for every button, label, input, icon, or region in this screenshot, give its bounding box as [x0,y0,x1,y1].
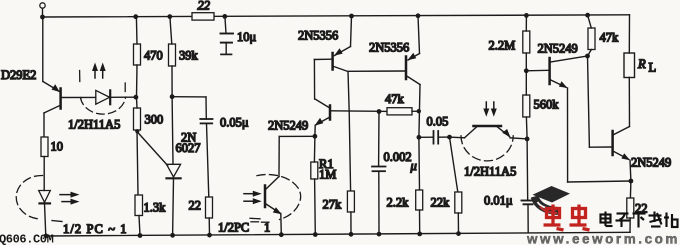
junction dot node 47k left [377,109,382,114]
resistor 22 right [627,181,648,232]
resistor 22 left-mid [189,197,213,235]
optocoupler LED 1/2H11A5 [80,63,136,115]
svg-text:R: R [637,57,646,71]
resistor 22 top [192,0,214,20]
watermark site name characters [601,212,678,228]
svg-text:0.01μ: 0.01μ [484,194,513,208]
capacitor 0.01u [484,139,535,233]
junction dot node R1 top [313,134,318,139]
resistor 2.2k [387,190,423,234]
junction dot node base Q5 [524,68,529,73]
svg-text:2.2M: 2.2M [489,39,516,53]
svg-text:2N5249: 2N5249 [268,119,308,133]
resistor 47k right [588,15,620,56]
junction dots top rail [40,13,590,20]
svg-text:22k: 22k [431,196,451,210]
watermark graduation cap logo [533,186,571,213]
transistor Q4 2N5356 [406,16,420,190]
capacitor 0.002u [372,112,417,235]
svg-text:22: 22 [198,0,211,13]
svg-text:1/2H11A5: 1/2H11A5 [464,165,516,179]
svg-text:2N5249: 2N5249 [631,156,671,170]
svg-text:1/2 PC ~ 1: 1/2 PC ~ 1 [63,222,128,236]
wire bottom ground rail [46,232,631,236]
resistor 300 [134,97,164,195]
svg-text:300: 300 [145,113,164,127]
resistor 47k [385,92,419,115]
junction dot node emitter join [629,179,634,184]
transistor Q2 2N5249 [314,60,387,137]
wire Q5 collector to Q6 base [588,56,612,147]
capacitor 10u [221,16,257,54]
capacitor 0.05 [419,115,450,144]
svg-text:22: 22 [189,199,202,213]
transistor Q6 2N5249 [613,127,631,182]
svg-text:1/2PC: 1/2PC [218,221,249,235]
svg-text:1.3k: 1.3k [144,201,167,215]
resistor RL [624,15,656,127]
transistor Q1 D29E2 [43,17,96,137]
svg-text:2N5249: 2N5249 [538,42,578,56]
svg-text:1/2H11A5: 1/2H11A5 [68,118,120,132]
resistor 22k [431,137,462,234]
junction dot node 0.05 left [417,135,422,140]
svg-text:47k: 47k [600,31,620,45]
optocoupler phototransistor 1/2PC-1 [244,136,315,234]
node V+ input terminal [40,3,45,17]
junction dot node 0.05 right [447,135,452,140]
resistor R1 1M [311,136,337,234]
svg-text:10: 10 [51,140,64,154]
svg-text:0.05: 0.05 [427,115,449,129]
wire top supply rail [43,15,630,17]
transistor Q5 2N5249 [526,56,631,182]
resistor 1.3k [135,195,166,236]
resistor 27k [323,191,355,234]
resistor 10 [41,137,63,191]
svg-text:www.eeworm.com: www.eeworm.com [526,232,680,245]
transistor Q3 2N5356 [314,16,404,191]
junction dot node 39k/PUT/0.05u [170,94,175,99]
svg-text:39k: 39k [179,49,199,63]
svg-text:1: 1 [264,221,270,235]
svg-text:470: 470 [144,49,163,63]
label 2N6027 [176,131,201,156]
capacitor 0.05u [172,97,249,197]
svg-text:D29E2: D29E2 [1,68,36,82]
svg-text:0.05μ: 0.05μ [220,116,249,130]
svg-text:6027: 6027 [176,141,201,155]
junction dot node Q5 collector [585,54,590,59]
watermark chongchong red characters [544,205,590,231]
optocoupler phototransistor 1/2H11A5 [450,102,528,161]
svg-text:2N5356: 2N5356 [298,29,338,43]
junction dots bottom rail [44,231,461,238]
svg-text:Q606.C0M: Q606.C0M [0,232,54,245]
thyristor PUT 2N6027 [135,97,180,236]
svg-text:1M: 1M [319,168,336,182]
junction dot node 47k right [417,109,421,113]
svg-text:2N5356: 2N5356 [369,41,409,55]
junction dot node LED cathode [134,95,139,100]
resistor 560k [523,71,559,139]
junction dot node 0.01u top [525,137,530,142]
label 1/2PC-1 [218,221,270,235]
svg-text:27k: 27k [323,198,343,212]
resistor 470 [134,17,163,98]
svg-text:47k: 47k [385,92,405,106]
svg-text:10μ: 10μ [237,30,257,44]
svg-text:2.2k: 2.2k [387,196,410,210]
svg-text:560k: 560k [534,98,560,112]
optocoupler LED 1/2 PC-1 [16,175,79,236]
resistor 39k [169,17,199,97]
resistor 2.2M [489,15,530,70]
svg-text:μ: μ [410,159,417,173]
svg-text:L: L [649,61,657,75]
svg-text:0.002: 0.002 [384,150,412,164]
